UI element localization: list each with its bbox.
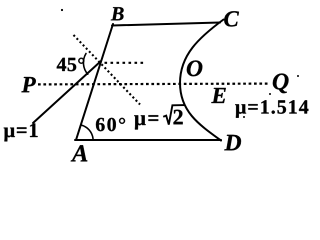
label Q <box>273 74 289 94</box>
speck right of Q <box>297 75 299 77</box>
label C <box>224 11 239 26</box>
label E <box>211 88 225 103</box>
dotted diagonal through incidence point <box>74 35 141 105</box>
refractive index mu=1.514 <box>235 100 308 117</box>
angle label 60 deg <box>96 118 125 131</box>
dotted horizontal from incidence point <box>105 62 146 64</box>
curved face CD <box>180 20 224 141</box>
incident ray <box>33 61 101 123</box>
speck above 5 of 1.514 <box>269 93 271 95</box>
prism bottom edge AD <box>75 139 221 141</box>
sqrt radical sign with overbar <box>163 105 185 125</box>
60 degree angle arc at A <box>81 125 93 139</box>
label P <box>21 77 35 92</box>
label B <box>111 7 124 20</box>
45 degree angle arc <box>83 54 87 75</box>
speck near D <box>243 116 245 118</box>
refractive index mu=1 <box>4 123 38 141</box>
prism face AB <box>76 24 113 140</box>
label O <box>187 60 202 76</box>
prism top edge BC <box>112 23 220 26</box>
refractive index mu=sqrt2: mu= part <box>134 115 158 129</box>
angle label 45 deg <box>57 58 85 71</box>
digit 2 under radical <box>174 110 183 125</box>
label A <box>71 145 88 161</box>
dotted axis P to Q <box>38 82 268 85</box>
label D <box>224 135 241 151</box>
speck near top left of C region <box>61 9 63 11</box>
